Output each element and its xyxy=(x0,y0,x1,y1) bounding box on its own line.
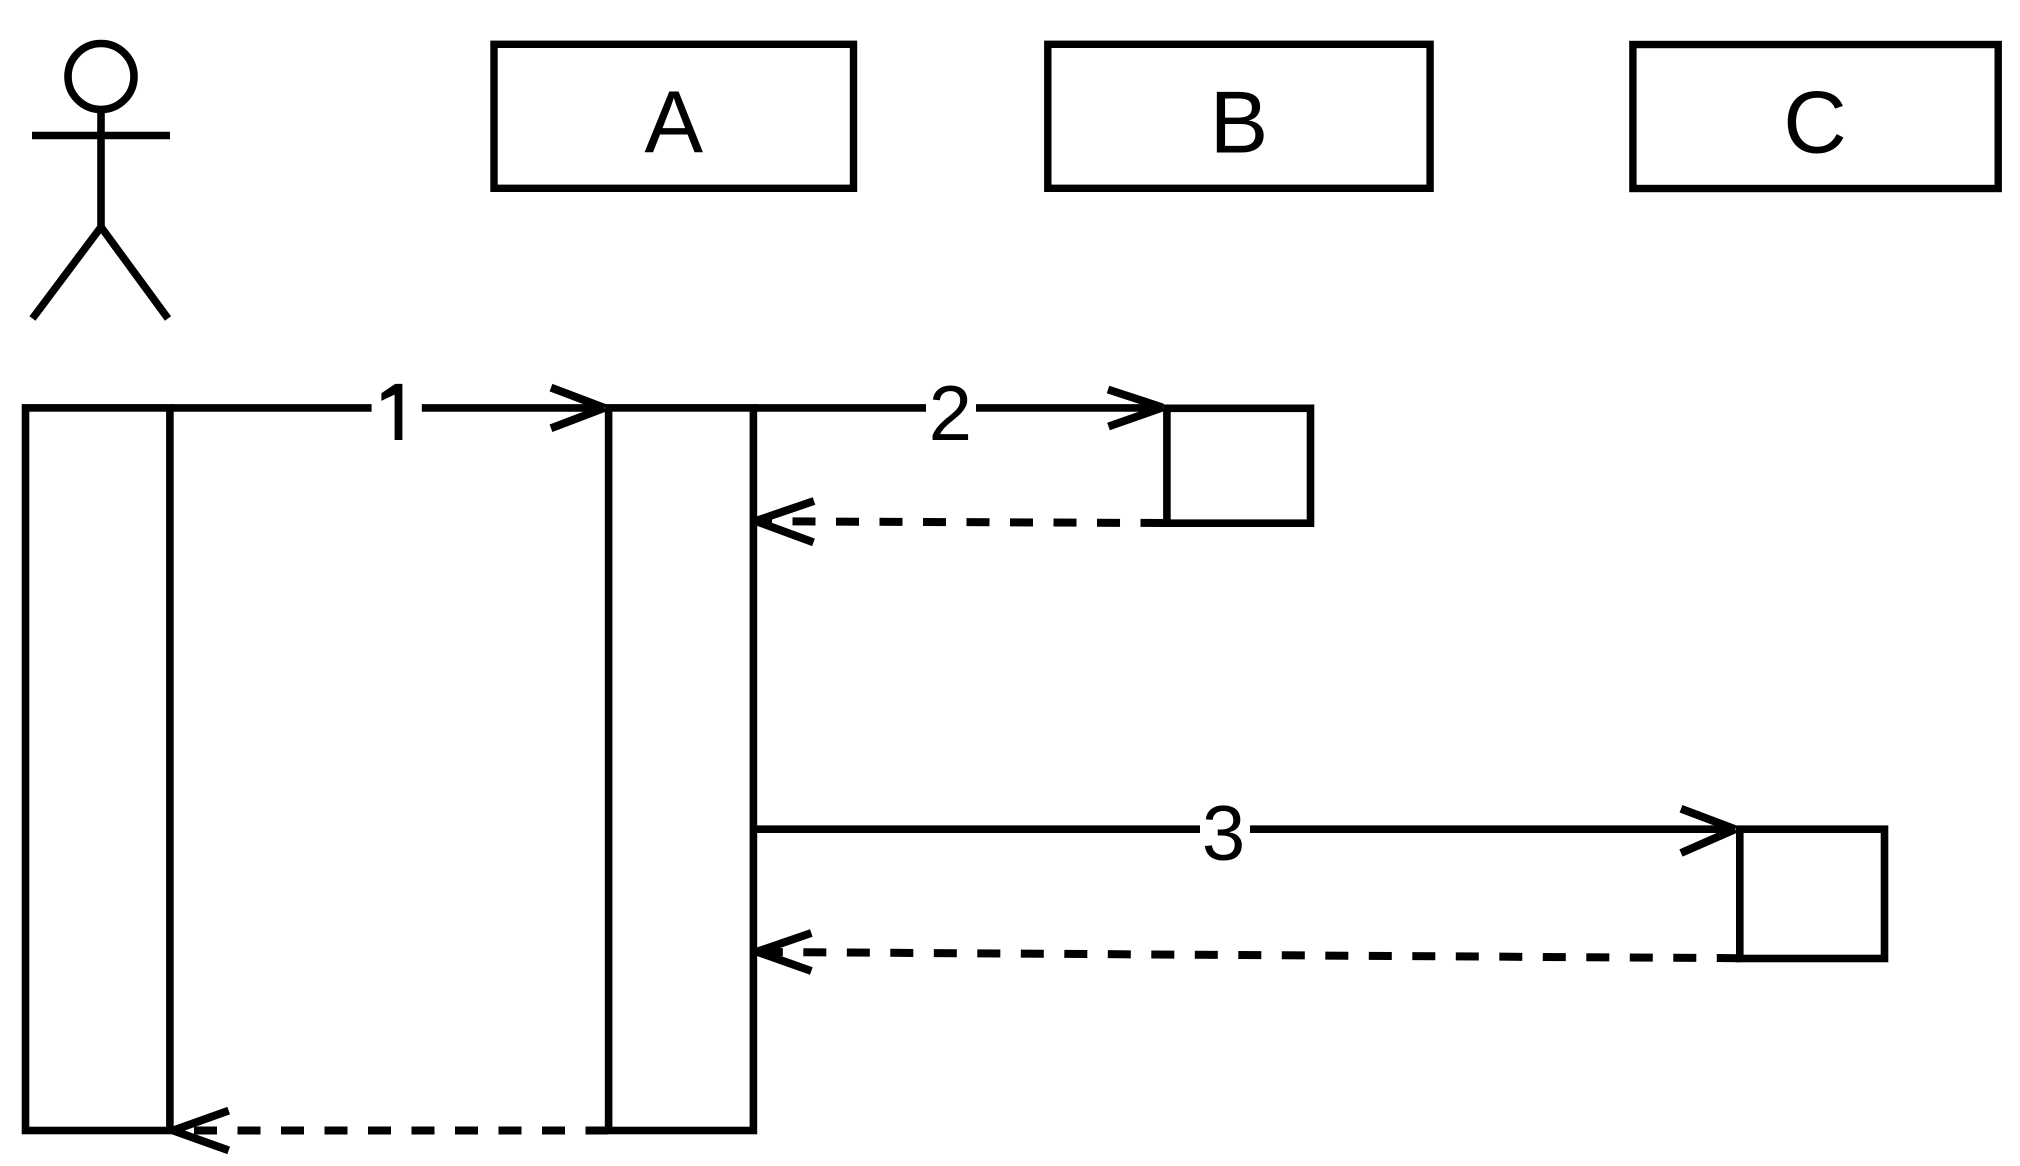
participant A box xyxy=(494,44,854,188)
B activation box xyxy=(1167,408,1311,523)
participant B box xyxy=(1048,44,1430,188)
C activation box xyxy=(1740,829,1885,958)
svg-text:3: 3 xyxy=(1202,788,1245,876)
actor stick figure xyxy=(32,44,170,319)
message 2 line xyxy=(753,404,1159,412)
A activation bar xyxy=(609,408,754,1131)
return from A to actor dashed xyxy=(173,1111,609,1151)
svg-text:2: 2 xyxy=(929,369,972,457)
message 3 arrowhead xyxy=(1681,809,1735,853)
svg-text:B: B xyxy=(1210,72,1269,171)
message 1 line xyxy=(170,404,601,412)
actor activation bar xyxy=(26,408,170,1131)
message 1 label xyxy=(381,384,402,440)
message 1 arrowhead xyxy=(551,388,605,429)
return from B to A dashed xyxy=(756,501,1164,542)
participant C box xyxy=(1633,45,1998,189)
svg-text:C: C xyxy=(1783,72,1847,171)
svg-text:A: A xyxy=(644,72,703,171)
return from C to A dashed xyxy=(757,933,1740,971)
message 2 arrowhead xyxy=(1108,390,1163,427)
message 3 line xyxy=(753,825,1732,833)
